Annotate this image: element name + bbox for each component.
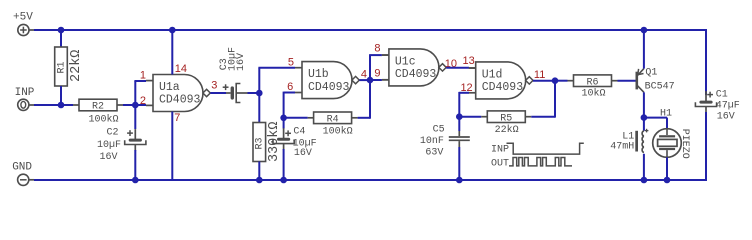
svg-text:C2: C2 — [106, 127, 118, 138]
svg-text:U1b: U1b — [308, 68, 329, 81]
op-amp U1b NAND gate CD4093 — [302, 62, 352, 99]
op-amp U1d NAND gate CD4093 — [476, 62, 526, 99]
wire R3 to GND — [258, 162, 260, 181]
wire node down to C5 — [458, 117, 460, 131]
wire R5 to U1d output — [531, 116, 555, 118]
svg-text:R4: R4 — [327, 114, 339, 125]
svg-text:47mH: 47mH — [610, 142, 634, 153]
wire C2 to GND — [134, 150, 136, 180]
svg-text:22kΩ: 22kΩ — [69, 50, 84, 82]
wire Q1 emitter down — [643, 92, 645, 117]
wire C5 to GND — [458, 147, 460, 180]
resistor R6 — [574, 75, 612, 87]
node +5V top rail wire — [34, 29, 706, 31]
svg-text:R2: R2 — [92, 102, 104, 113]
capacitor C2 — [129, 139, 142, 142]
svg-text:13: 13 — [463, 55, 475, 67]
wire C3 to timing node — [248, 92, 260, 94]
junction R5/C5 node — [456, 113, 463, 120]
wire node to piezo H1 — [644, 117, 667, 119]
junction C4/GND — [280, 177, 287, 184]
svg-text:CD4093: CD4093 — [395, 68, 437, 81]
junction at U1a input node — [132, 102, 139, 109]
wire R2 to U1a inputs — [123, 104, 146, 106]
GND terminal — [18, 174, 29, 185]
wire to pin 8 — [369, 55, 371, 80]
svg-text:5: 5 — [288, 56, 294, 68]
svg-text:16V: 16V — [294, 148, 312, 159]
resistor R4 — [314, 112, 352, 124]
junction U1d out — [552, 77, 559, 84]
inductor L1 — [642, 131, 644, 136]
capacitor C1 — [699, 101, 712, 104]
wire C1 to GND — [705, 112, 707, 181]
resistor R3 — [253, 123, 266, 162]
wire U1a output to C3 — [210, 92, 226, 94]
junction R3/GND — [256, 177, 263, 184]
svg-text:INP: INP — [15, 87, 35, 99]
junction R4/C4 node — [280, 115, 287, 122]
svg-text:C4: C4 — [293, 126, 305, 137]
junction C2/GND — [132, 177, 139, 184]
svg-text:INP: INP — [491, 144, 509, 155]
junction piezo/GND — [664, 177, 671, 184]
svg-text:H1: H1 — [660, 109, 672, 120]
junction U1b out — [367, 77, 374, 84]
wire to pin 9 — [370, 79, 382, 81]
junction L1/GND — [641, 177, 648, 184]
svg-text:9: 9 — [374, 68, 380, 80]
svg-text:PIEZO: PIEZO — [679, 129, 690, 159]
svg-text:OUT: OUT — [491, 159, 509, 170]
svg-text:GND: GND — [12, 161, 32, 173]
svg-text:R3: R3 — [254, 137, 265, 149]
wire Q1 collector to +5V — [643, 30, 645, 69]
pin 7 power wire — [171, 112, 173, 181]
svg-text:C1: C1 — [716, 90, 728, 101]
junction C5/GND — [456, 177, 463, 184]
junction timing node — [256, 90, 263, 97]
svg-text:3: 3 — [211, 80, 217, 92]
svg-text:330kΩ: 330kΩ — [267, 122, 282, 163]
+5V supply terminal — [18, 24, 29, 35]
wire node to pin 1 — [134, 81, 136, 105]
svg-text:C5: C5 — [433, 124, 445, 135]
wire U1b output node — [359, 79, 370, 81]
svg-text:47µF: 47µF — [716, 100, 740, 111]
svg-text:CD4093: CD4093 — [308, 81, 350, 94]
junction R1/INP wire — [58, 102, 65, 109]
svg-text:22kΩ: 22kΩ — [495, 124, 519, 136]
transistor Q1 BC547 — [635, 72, 638, 90]
svg-text:U1d: U1d — [482, 69, 503, 82]
wire R1 to INP net — [60, 86, 62, 105]
svg-text:10nF: 10nF — [420, 136, 444, 147]
svg-text:U1a: U1a — [159, 81, 180, 94]
svg-text:R5: R5 — [500, 113, 512, 124]
svg-text:2: 2 — [140, 95, 146, 107]
capacitor C4 — [277, 138, 290, 141]
wire node down to C4 — [283, 118, 285, 129]
wire L1 to GND — [643, 154, 645, 180]
capacitor C3 — [231, 86, 234, 99]
wire INP to R2 — [34, 104, 73, 106]
wire pin 6 down to R4/C4 node — [284, 92, 295, 94]
node GND bottom rail wire — [34, 179, 706, 181]
svg-text:4: 4 — [361, 69, 367, 81]
wire node up to pin 5 — [258, 68, 260, 93]
piezo H1 — [653, 129, 682, 158]
wire +5V to R1 — [60, 30, 62, 47]
wire +5V rail right corner to C1 — [705, 29, 707, 95]
svg-text:6: 6 — [287, 81, 293, 93]
svg-text:R6: R6 — [586, 77, 598, 88]
pin 14 power wire — [171, 30, 173, 75]
wire node down to R3 — [258, 93, 260, 123]
svg-text:CD4093: CD4093 — [482, 81, 524, 94]
svg-text:10µF: 10µF — [97, 140, 121, 151]
svg-text:8: 8 — [374, 43, 380, 55]
svg-text:CD4093: CD4093 — [159, 94, 201, 107]
svg-text:11: 11 — [534, 69, 545, 81]
resistor R5 — [487, 111, 525, 123]
resistor R2 — [79, 99, 117, 111]
junction on +5V rail at R1 — [58, 27, 65, 34]
svg-text:16V: 16V — [236, 53, 247, 71]
wire to R6 — [555, 80, 568, 82]
svg-text:100kΩ: 100kΩ — [88, 113, 118, 125]
INP input terminal — [18, 99, 29, 110]
svg-text:BC547: BC547 — [645, 81, 675, 92]
svg-text:100kΩ: 100kΩ — [323, 125, 353, 137]
svg-text:16V: 16V — [717, 111, 735, 122]
resistor R1 — [55, 47, 68, 86]
wire U1d output — [533, 80, 555, 82]
svg-text:7: 7 — [174, 112, 180, 124]
svg-text:R1: R1 — [56, 61, 67, 73]
svg-text:14: 14 — [175, 63, 187, 75]
svg-text:1: 1 — [140, 69, 146, 81]
op-amp U1c NAND gate CD4093 — [389, 49, 439, 86]
op-amp U1a NAND gate CD4093 — [153, 75, 203, 112]
svg-text:Q1: Q1 — [645, 68, 657, 79]
svg-text:10kΩ: 10kΩ — [581, 87, 605, 99]
wire U1c output to U1d pin 13 — [446, 67, 469, 69]
wire pin 12 to R5/C5 node — [459, 92, 469, 94]
svg-text:63V: 63V — [425, 148, 443, 159]
wire piezo to GND — [666, 157, 668, 180]
wire node down to C2 — [134, 105, 136, 129]
svg-text:16V: 16V — [99, 152, 117, 163]
junction emitter node — [641, 114, 648, 121]
wire C4 to GND — [283, 149, 285, 180]
wire R6 to Q1 base — [618, 80, 636, 82]
junction collector/+5V — [641, 27, 648, 34]
svg-text:U1c: U1c — [395, 56, 416, 69]
svg-text:+5V: +5V — [13, 12, 33, 24]
wire node to L1 — [643, 118, 645, 131]
wire R4 to U1b output — [358, 117, 370, 119]
capacitor C5 — [458, 131, 460, 136]
